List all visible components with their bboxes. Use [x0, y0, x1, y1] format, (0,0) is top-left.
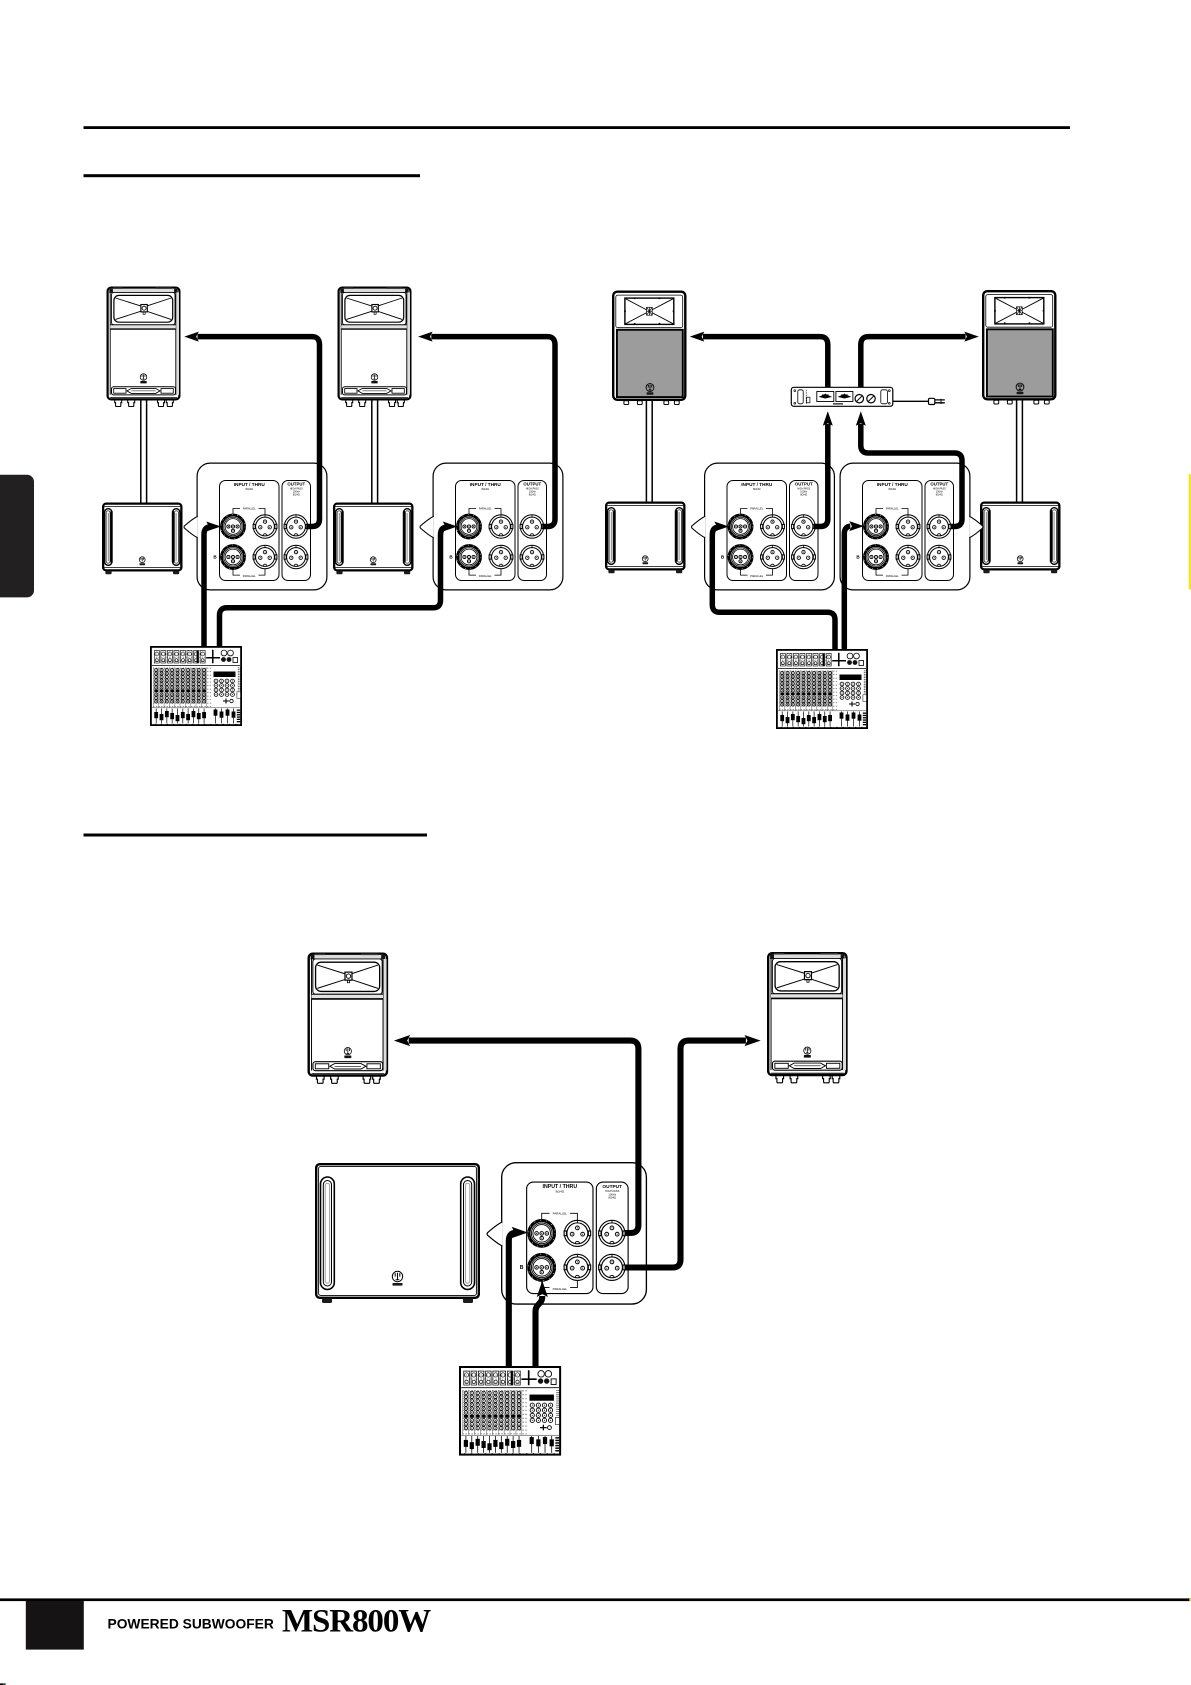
wire: P2 OUTPUT A to SP2: [431, 337, 555, 527]
wire: mixer M1 to P1 INPUT A: [204, 527, 210, 648]
wire: P3 OUTPUT A to processor input L: [814, 424, 828, 527]
wire: mixer M3 to P5 INPUT A: [509, 1233, 515, 1367]
wire: P1 OUTPUT A to SP1: [198, 337, 320, 527]
speaker stand pole 4: [1017, 396, 1023, 505]
mixer M3: [460, 1367, 560, 1455]
mixer M1: [151, 647, 241, 725]
speaker SP5: [309, 954, 387, 1084]
subwoofer SUB3: [606, 503, 684, 574]
speaker SP1: [108, 288, 180, 407]
wire: mixer M3 to P5 INPUT B: [536, 1296, 543, 1367]
amp panel P4: [840, 463, 983, 590]
section 2 heading underline: [84, 834, 428, 837]
mixer M2: [777, 650, 867, 728]
speaker stand pole 3: [646, 396, 652, 505]
wire: P5 OUTPUT A to SP5: [409, 1041, 639, 1233]
wire: mixer M2 to P3 INPUT A: [712, 527, 835, 650]
speaker SP2: [339, 288, 411, 407]
wire: processor output L to SP3: [703, 337, 828, 390]
section 1 heading underline: [84, 174, 421, 177]
speaker SP4: [983, 291, 1055, 404]
subwoofer SUB2: [334, 504, 412, 575]
amp panel P2: [420, 463, 563, 590]
amp panel P5: [487, 1163, 646, 1304]
speaker stand pole 1: [141, 396, 147, 505]
wire: P5 OUTPUT B to SP6: [625, 1041, 746, 1268]
svg-text:POWERED SUBWOOFER: POWERED SUBWOOFER: [108, 1616, 274, 1631]
speaker SP6: [768, 953, 846, 1083]
power cord and plug: [893, 398, 945, 404]
top rule: [84, 126, 1071, 129]
svg-text:MSR800W: MSR800W: [282, 1604, 431, 1640]
amp panel P3: [692, 463, 835, 590]
footer rule right end yellow tick: [1189, 1599, 1191, 1601]
wire: mixer M1 to P2 INPUT A: [220, 527, 447, 648]
footer black square: [26, 1601, 84, 1650]
processor U1: [791, 387, 893, 406]
speaker SP3: [613, 292, 685, 405]
subwoofer SUB4: [981, 503, 1059, 574]
wire: processor output R to SP4: [861, 337, 966, 390]
subwoofer SUB1: [103, 504, 181, 575]
speaker stand pole 2: [372, 396, 378, 505]
wire: P4 OUTPUT A to processor input R: [861, 424, 962, 527]
wire: mixer M2 to P4 INPUT A: [844, 526, 850, 650]
amp panel P1: [184, 463, 327, 590]
corner printing mark: [0, 1683, 6, 1685]
section index tab left (black): [0, 475, 34, 598]
section index tab right (yellow): [1189, 474, 1191, 590]
footer rule: [0, 1598, 1191, 1601]
subwoofer SUB5: [316, 1164, 479, 1303]
